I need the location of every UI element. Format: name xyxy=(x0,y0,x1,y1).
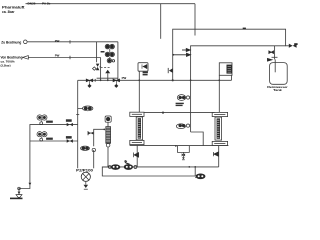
svg-text:PW: PW xyxy=(122,76,127,80)
svg-text:DN25: DN25 xyxy=(28,1,36,5)
svg-text:PA 3b: PA 3b xyxy=(42,1,51,5)
svg-text:Pharmaluft: Pharmaluft xyxy=(2,5,25,9)
svg-text:PW: PW xyxy=(55,54,60,58)
svg-text:Tank: Tank xyxy=(273,88,282,92)
svg-text:Zu Beatmung: Zu Beatmung xyxy=(1,41,21,45)
svg-text:(3,5bar): (3,5bar) xyxy=(1,63,11,67)
svg-text:ca. 3bar: ca. 3bar xyxy=(2,10,15,14)
svg-text:PW: PW xyxy=(55,39,60,43)
